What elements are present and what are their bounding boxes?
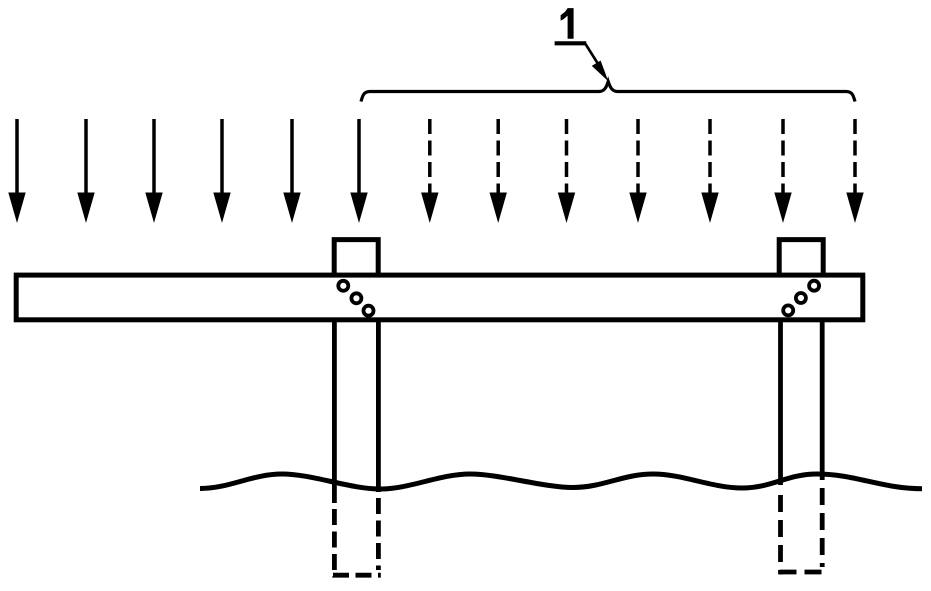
left connector bolt holes: [338, 281, 373, 316]
solid load arrow 3: [145, 119, 162, 223]
left pile buried part (dashed): [333, 498, 381, 578]
right pile buried part (dashed): [780, 488, 825, 574]
dashed load arrow 13: [846, 119, 863, 223]
solid load arrow 5: [283, 119, 300, 223]
dashed load arrow 9: [558, 119, 575, 223]
leader line from label 1: [586, 44, 601, 67]
dashed load arrow 8: [490, 119, 507, 223]
label 1 underline: [555, 41, 587, 45]
solid load arrow 6: [350, 119, 367, 223]
dashed load arrow 10: [629, 119, 646, 223]
dashed load arrow 7: [421, 119, 438, 223]
right pile shaft (solid above waterline): [781, 322, 823, 485]
waterline (wavy ground line): [200, 474, 922, 489]
left pile top cap: [334, 240, 378, 275]
brace spanning dashed-load region: [361, 82, 855, 102]
right connector bolt holes: [783, 281, 819, 316]
solid load arrow 1: [8, 119, 25, 223]
dashed load arrow 11: [701, 119, 718, 223]
leader arrowhead: [592, 61, 609, 82]
left pile shaft (solid above waterline): [334, 322, 378, 503]
solid load arrow 4: [213, 119, 230, 223]
right pile top cap: [779, 240, 823, 275]
solid load arrow 2: [77, 119, 94, 223]
beam (horizontal cap beam): [16, 275, 863, 320]
dashed load arrow 12: [774, 119, 791, 223]
label 1 (digit drawn as path): [561, 8, 574, 39]
